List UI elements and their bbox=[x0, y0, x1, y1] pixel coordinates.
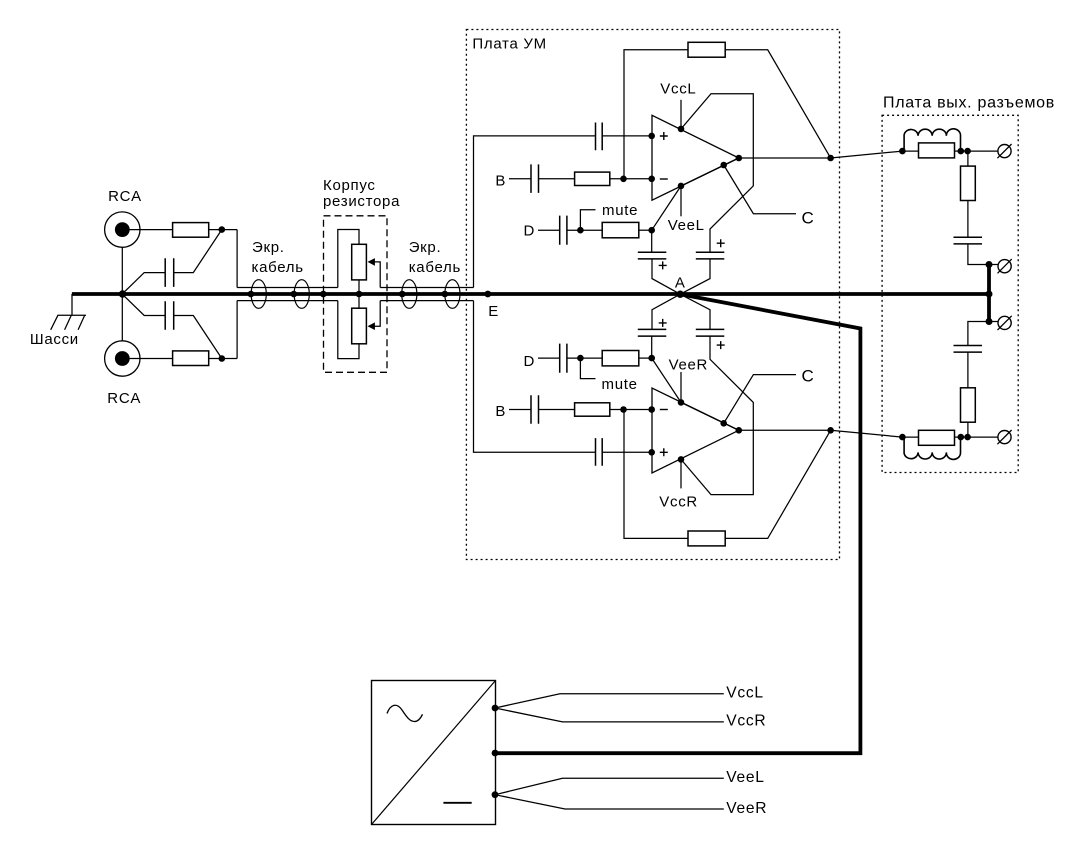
feedback wire bbox=[624, 410, 688, 539]
capacitor bypass VeeL (electrolytic) bbox=[651, 230, 653, 252]
PSU box bbox=[372, 681, 496, 825]
junction dot feedback bbox=[620, 176, 627, 183]
svg-text:B: B bbox=[495, 172, 506, 189]
wire resistor out bbox=[955, 436, 968, 438]
wire resistor to corner bbox=[209, 358, 237, 360]
resistor zobel top bbox=[961, 166, 976, 200]
resistor B input bbox=[575, 172, 610, 185]
resistor output bottom bbox=[919, 430, 955, 445]
zobel chain top: wire down bbox=[967, 151, 969, 166]
wire VeeL pin to apex bbox=[681, 158, 739, 186]
wire resistor out bbox=[955, 150, 968, 152]
svg-text:mute: mute bbox=[602, 376, 638, 393]
wire to resistor bbox=[902, 150, 918, 152]
wire to mid terminal top bbox=[989, 264, 998, 266]
output board dotted box bbox=[882, 115, 1018, 472]
wire mute node to VeeR pin bbox=[652, 358, 681, 402]
terminal connector bottom bbox=[997, 430, 1011, 444]
capacitor zobel bottom bbox=[954, 346, 983, 353]
shield ellipse 3 bbox=[402, 280, 417, 309]
capacitor bypass VeeR (electrolytic) bbox=[651, 336, 653, 358]
capacitor zobel top bbox=[954, 237, 983, 244]
svg-text:VeeL: VeeL bbox=[726, 769, 764, 786]
wire D bbox=[538, 229, 560, 231]
svg-text:B: B bbox=[495, 403, 506, 420]
svg-text:VccL: VccL bbox=[660, 80, 696, 97]
potentiometer top (volume L) bbox=[338, 230, 474, 295]
junction dot +input bbox=[648, 133, 655, 140]
wire down to signal line bbox=[236, 230, 238, 288]
output apex dot bbox=[736, 155, 743, 162]
junction dot output bbox=[827, 427, 834, 434]
wire cap to mute resistor bbox=[567, 357, 602, 359]
resistor output top bbox=[919, 143, 955, 158]
svg-text:A: A bbox=[675, 274, 686, 291]
VccR stub bbox=[680, 459, 682, 488]
shielded cable section 1 bbox=[248, 280, 310, 309]
mute stub bbox=[580, 210, 595, 231]
svg-text:E: E bbox=[488, 303, 499, 320]
svg-text:кабель: кабель bbox=[252, 259, 304, 276]
VccL pin dot bbox=[678, 126, 685, 133]
plus marking cap bbox=[717, 341, 725, 349]
VccR rail to bypass cap bbox=[681, 336, 753, 495]
junction dot bbox=[442, 291, 449, 298]
junction dot bbox=[248, 291, 255, 298]
wiper arrow bbox=[368, 258, 375, 266]
wire input E to noninverting input bbox=[474, 136, 596, 288]
feedback wire to output bbox=[725, 430, 830, 538]
node dot bottom RCA bbox=[219, 355, 226, 362]
wire VeeR pin to apex bbox=[681, 402, 739, 430]
capacitor input coupling bottom bbox=[596, 438, 603, 466]
central ground node dot bbox=[119, 290, 126, 297]
svg-text:резистора: резистора bbox=[323, 193, 400, 210]
junction dot bbox=[399, 291, 406, 298]
svg-text:C: C bbox=[802, 209, 815, 228]
wire cap to bus bar bbox=[968, 244, 989, 265]
wire to C bbox=[724, 165, 796, 214]
terminal connector mid bottom bbox=[998, 316, 1012, 330]
op-amp U1 triangle bbox=[652, 115, 739, 200]
wire VeeR bbox=[495, 795, 724, 809]
wire cap to bus bar bbox=[968, 322, 989, 346]
minus marking bbox=[660, 409, 668, 411]
wire to Vee node bbox=[639, 229, 652, 231]
svg-text:VeeL: VeeL bbox=[668, 217, 705, 234]
wire resistor to corner bbox=[209, 229, 237, 231]
wire cap to node A bbox=[652, 294, 680, 329]
plus marking cap bbox=[659, 319, 667, 327]
wire up to signal line bbox=[236, 301, 238, 359]
svg-text:RCA: RCA bbox=[108, 188, 142, 205]
node A dot bbox=[677, 291, 684, 298]
wire wiper to amp board bbox=[380, 300, 473, 302]
junction dot mute out bbox=[648, 355, 655, 362]
capacitor bypass VccL (electrolytic) bbox=[696, 252, 725, 259]
VeeR pin dot bbox=[678, 399, 685, 406]
VccR pin dot bbox=[678, 456, 685, 463]
VeeR stub bbox=[680, 372, 682, 402]
capacitor B coupling bbox=[531, 395, 539, 424]
plus marking bbox=[660, 448, 668, 456]
resistor zobel bottom bbox=[961, 388, 976, 422]
wire cap to resistor bbox=[539, 178, 575, 180]
junction dot pot to bus bbox=[356, 291, 363, 298]
zobel chain bottom: wire up bbox=[967, 422, 969, 437]
minus marking bbox=[660, 178, 668, 180]
junction dot feedback bbox=[620, 406, 627, 413]
inductor output bottom bbox=[904, 437, 960, 459]
output wire bbox=[739, 429, 831, 431]
wire cap to +input bbox=[602, 135, 652, 137]
feedback wire bbox=[624, 50, 688, 179]
PSU diagonal bbox=[372, 681, 496, 825]
junction dot in bbox=[899, 434, 906, 441]
shield ellipse 2 bbox=[294, 280, 309, 309]
resistor top RCA series bbox=[173, 223, 209, 238]
wire VccL bbox=[495, 694, 724, 708]
svg-text:D: D bbox=[524, 353, 536, 370]
plus marking bbox=[660, 132, 668, 140]
plus marking cap bbox=[717, 239, 725, 247]
wire to terminal bbox=[968, 436, 998, 438]
VeeL pin dot bbox=[678, 183, 685, 190]
wire RCA top ground to bus node bbox=[121, 247, 123, 294]
amplifier board dotted box bbox=[466, 30, 839, 560]
RCA connector top bbox=[105, 212, 140, 247]
resistor bottom RCA series bbox=[173, 351, 209, 366]
junction dot mute bbox=[577, 355, 584, 362]
wire top signal line to pot box bbox=[237, 287, 338, 289]
svg-text:Шасси: Шасси bbox=[30, 331, 79, 348]
junction dot C tap bbox=[720, 420, 727, 427]
svg-text:D: D bbox=[524, 223, 536, 240]
wire VeeL bbox=[495, 778, 724, 794]
PSU Vcc output dot bbox=[492, 705, 499, 712]
plus marking cap bbox=[659, 261, 667, 269]
wire cap to node A bbox=[680, 294, 710, 329]
svg-text:RCA: RCA bbox=[107, 390, 141, 407]
svg-text:Экр.: Экр. bbox=[409, 239, 442, 256]
wire to mid terminal bottom bbox=[989, 321, 998, 323]
wire RCA bottom pin to resistor bbox=[122, 358, 172, 360]
wire to cap bbox=[967, 352, 969, 388]
wire RCA top pin to resistor bbox=[122, 229, 172, 231]
wire cap to resistor bbox=[539, 409, 575, 411]
svg-text:VeeR: VeeR bbox=[726, 800, 767, 817]
VeeL stub bbox=[680, 186, 682, 216]
junction dot mute out bbox=[648, 227, 655, 234]
wire resistor to -input bbox=[610, 409, 652, 411]
PSU Vee output dot bbox=[492, 791, 499, 798]
junction dot bus at box edge bbox=[320, 291, 327, 298]
wire to output board bottom bbox=[831, 430, 903, 437]
op-amp U2 triangle bbox=[652, 388, 739, 473]
svg-text:VccL: VccL bbox=[726, 685, 763, 702]
node dot top RCA bbox=[219, 226, 226, 233]
junction dot bbox=[291, 291, 298, 298]
output wire bbox=[739, 157, 831, 159]
svg-text:кабель: кабель bbox=[409, 259, 461, 276]
capacitor D coupling bbox=[560, 344, 567, 373]
wire wiper to amp board bbox=[380, 287, 473, 289]
resistor B input bbox=[575, 403, 610, 416]
shield ellipse 1 bbox=[251, 280, 266, 309]
svg-text:mute: mute bbox=[602, 202, 638, 219]
junction dots bbox=[958, 434, 965, 441]
wire to C bbox=[724, 375, 796, 424]
terminal connector mid top bbox=[998, 259, 1012, 273]
junction dot output bbox=[827, 155, 834, 162]
ground bus end bar (output board) bbox=[987, 262, 991, 324]
junction dot C tap bbox=[720, 162, 727, 169]
RCA connector bottom bbox=[105, 341, 140, 376]
potentiometer bottom (volume R) bbox=[338, 294, 474, 359]
wire cap to node A bbox=[680, 259, 710, 294]
chassis wire bbox=[71, 294, 73, 315]
terminal connector top bbox=[997, 144, 1011, 158]
node E dot bbox=[484, 291, 491, 298]
capacitor bypass VccR (electrolytic) bbox=[696, 329, 725, 336]
resistor feedback top bbox=[688, 42, 725, 57]
wiper arrow bbox=[368, 322, 375, 330]
wire B bbox=[509, 178, 531, 180]
svg-text:VccR: VccR bbox=[726, 713, 766, 730]
shielded cable section 2 bbox=[399, 280, 460, 309]
resistor mute bottom bbox=[602, 351, 639, 366]
ground bus (thick horizontal net) bbox=[72, 292, 989, 296]
potentiometer case dashed box bbox=[324, 216, 388, 372]
svg-text:VeeR: VeeR bbox=[669, 356, 709, 373]
junction dot -input bbox=[648, 406, 655, 413]
chassis ground symbol bbox=[51, 315, 86, 330]
bus bar junction dots bbox=[986, 261, 993, 268]
junction dots bbox=[958, 148, 965, 155]
PSU sine symbol bbox=[387, 705, 423, 721]
svg-text:C: C bbox=[802, 366, 815, 385]
inductor output top bbox=[904, 129, 960, 151]
wire input E to noninverting input bbox=[474, 301, 596, 453]
wire RCA bottom ground to bus node bbox=[121, 294, 123, 341]
wire to terminal bbox=[968, 150, 998, 152]
mute stub bbox=[580, 358, 595, 379]
wire bottom signal line to pot box bbox=[237, 300, 338, 302]
wire VccR bbox=[495, 708, 724, 722]
capacitor input coupling top bbox=[596, 123, 603, 151]
svg-text:Корпус: Корпус bbox=[323, 177, 376, 194]
wire to output board top bbox=[831, 151, 903, 158]
resistor mute top bbox=[602, 222, 639, 237]
resistor feedback bottom bbox=[688, 531, 725, 546]
output apex dot bbox=[736, 427, 743, 434]
thick power ground return wire A to PSU bbox=[495, 294, 860, 753]
svg-text:Экр.: Экр. bbox=[252, 239, 285, 256]
svg-text:VccR: VccR bbox=[659, 493, 698, 510]
svg-text:Плата вых. разъемов: Плата вых. разъемов bbox=[883, 95, 1055, 112]
VccL stub bbox=[680, 100, 682, 129]
wire to resistor bbox=[902, 436, 918, 438]
wire cap to node A bbox=[652, 259, 680, 294]
feedback wire to output bbox=[725, 50, 830, 158]
shield ellipse 4 bbox=[445, 280, 460, 309]
VccL rail to bypass cap bbox=[681, 94, 753, 253]
wire cap to mute resistor bbox=[567, 229, 602, 231]
wire cap to +input bbox=[602, 451, 652, 453]
wire mute node to VeeL pin bbox=[652, 186, 681, 230]
wire to cap bbox=[967, 201, 969, 238]
capacitor B coupling bbox=[531, 164, 539, 193]
wire B bbox=[509, 409, 531, 411]
junction dot -input bbox=[648, 176, 655, 183]
svg-text:Плата УМ: Плата УМ bbox=[472, 36, 546, 53]
capacitor bottom RCA filter bbox=[123, 294, 222, 358]
wire resistor to -input bbox=[610, 178, 652, 180]
wire D bbox=[538, 357, 560, 359]
junction dot +input bbox=[648, 449, 655, 456]
junction dot in bbox=[899, 148, 906, 155]
junction dot mute bbox=[577, 227, 584, 234]
PSU ground output dot bbox=[492, 750, 499, 757]
PSU minus symbol bbox=[443, 802, 471, 804]
capacitor D coupling bbox=[560, 216, 567, 245]
capacitor top RCA filter bbox=[123, 230, 222, 294]
wire mute resistor out bbox=[639, 357, 652, 359]
